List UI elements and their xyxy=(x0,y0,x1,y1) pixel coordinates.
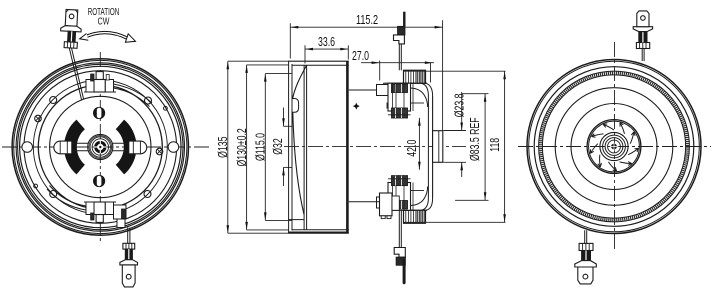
svg-text:Ø83.5 REF: Ø83.5 REF xyxy=(468,117,482,161)
svg-text:Ø23.8: Ø23.8 xyxy=(453,93,467,117)
svg-text:115.2: 115.2 xyxy=(356,14,378,28)
svg-text:Ø130±0.2: Ø130±0.2 xyxy=(236,128,250,166)
svg-text:Ø115.0: Ø115.0 xyxy=(254,133,268,161)
svg-text:CW: CW xyxy=(98,15,111,26)
svg-text:42.0: 42.0 xyxy=(406,140,420,157)
svg-text:Ø135: Ø135 xyxy=(217,137,231,158)
svg-text:27.0: 27.0 xyxy=(352,49,369,63)
svg-text:Ø32: Ø32 xyxy=(271,138,285,155)
svg-text:33.6: 33.6 xyxy=(318,36,335,50)
svg-text:118: 118 xyxy=(489,138,503,152)
